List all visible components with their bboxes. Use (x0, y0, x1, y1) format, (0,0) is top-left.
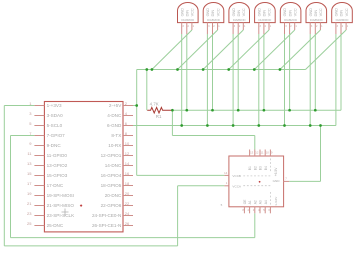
svg-text:GND: GND (180, 8, 184, 17)
svg-text:1: 1 (270, 25, 272, 28)
wire LED6 VCC diagonal (280, 30, 321, 70)
svg-text:B2: B2 (253, 166, 257, 170)
IC1 MISO marker (80, 204, 83, 207)
junction +5V bus LED5 (253, 68, 256, 71)
svg-text:23-SPI-SCLK: 23-SPI-SCLK (47, 213, 76, 218)
svg-text:3: 3 (285, 25, 287, 28)
svg-text:GND: GND (283, 8, 287, 17)
svg-text:10-RX: 10-RX (108, 143, 121, 148)
svg-text:3-SDA0: 3-SDA0 (47, 113, 64, 118)
IC2 dashed internal rails (243, 159, 270, 205)
LED6 pin numbers (311, 25, 323, 28)
wire GND stem to IC2 GND pin (289, 126, 320, 182)
wire GPIO7 net: IC1 pin7 to IC2 A2 (11, 136, 255, 238)
wire data net horizontal (172, 34, 341, 110)
R1 value label 4.7K (150, 101, 159, 106)
svg-text:DIA8MOD: DIA8MOD (233, 18, 246, 22)
svg-text:1: 1 (218, 25, 220, 28)
svg-text:26-SPI-CE1-N: 26-SPI-CE1-N (92, 223, 121, 228)
wire LED6 DIN vertical (314, 34, 316, 110)
LED4 pin stubs (259, 23, 269, 34)
svg-text:3: 3 (234, 25, 236, 28)
IC1 Raspberry Pi GPIO header box (44, 102, 123, 232)
IC2 left pin stubs VCCB VCCA (224, 175, 229, 185)
svg-text:VCCA: VCCA (232, 184, 242, 188)
LED5 pin numbers (285, 25, 297, 28)
svg-text:A4: A4 (264, 200, 268, 204)
junction +5V bus LED1 (151, 68, 154, 71)
svg-text:11: 11 (27, 151, 32, 156)
svg-text:VCC: VCC (242, 8, 246, 16)
svg-text:18: 18 (125, 181, 130, 186)
svg-text:3: 3 (29, 111, 32, 116)
svg-text:B4: B4 (264, 166, 268, 170)
svg-text:DIA8MOD: DIA8MOD (310, 18, 323, 22)
svg-text:13: 13 (250, 151, 254, 155)
svg-text:5: 5 (221, 203, 223, 207)
junction data LED3 (237, 109, 240, 112)
junction data LED2 (211, 109, 214, 112)
svg-text:16: 16 (125, 171, 130, 176)
svg-text:A3: A3 (259, 200, 263, 204)
LED5 pin stubs (285, 23, 295, 34)
svg-text:B3: B3 (259, 166, 263, 170)
svg-text:15: 15 (27, 171, 32, 176)
svg-text:VCC: VCC (268, 8, 272, 16)
wire LED3 VCC diagonal (203, 30, 243, 70)
svg-text:2: 2 (239, 25, 241, 28)
wire +3V3 net: IC1 pin1 to IC2 VCCA (4, 106, 224, 246)
junction +5V bus LED6 (279, 68, 282, 71)
svg-text:1: 1 (244, 25, 246, 28)
junction GND stem (319, 124, 322, 127)
junction data LED5 (288, 109, 291, 112)
svg-text:DIN: DIN (314, 10, 318, 17)
LED1 pin numbers (182, 25, 194, 28)
svg-text:23: 23 (27, 211, 32, 216)
IC1 left pin stubs (34, 106, 44, 226)
svg-text:2: 2 (290, 25, 292, 28)
svg-text:16-GPIO4: 16-GPIO4 (101, 173, 122, 178)
LED1 pin stubs (182, 23, 192, 34)
svg-text:14: 14 (224, 171, 228, 175)
LED7 pin stubs (336, 23, 346, 34)
svg-text:12: 12 (125, 151, 130, 156)
svg-text:VCC: VCC (293, 8, 297, 16)
svg-text:17: 17 (27, 181, 32, 186)
svg-text:12-GPIO1: 12-GPIO1 (101, 153, 122, 158)
svg-text:10: 10 (125, 141, 130, 146)
LED6 NeoPixel dome (306, 2, 327, 22)
svg-text:17-DNC: 17-DNC (47, 183, 64, 188)
svg-text:9-DNC: 9-DNC (47, 143, 62, 148)
wire LED5 GND vertical (284, 34, 286, 126)
svg-text:26: 26 (125, 221, 130, 226)
junction +5V bus LED4 (227, 68, 230, 71)
svg-text:DIN: DIN (340, 10, 344, 17)
junction data stem (171, 109, 174, 112)
wire LED6 GND vertical (309, 34, 311, 126)
LED1 NeoPixel dome (178, 2, 199, 22)
wire LED1 VCC diagonal (152, 30, 192, 70)
IC2 right pin stub GND (284, 180, 290, 182)
svg-text:A1: A1 (248, 200, 252, 204)
svg-text:11: 11 (261, 151, 264, 155)
svg-text:VCC: VCC (191, 8, 195, 16)
IC2 inside pin names (232, 166, 280, 206)
svg-text:7-GPIO7: 7-GPIO7 (47, 133, 66, 138)
junction GND LED5 (283, 124, 286, 127)
wire LED2 GND vertical (206, 34, 208, 126)
svg-text:20-DNC: 20-DNC (105, 193, 122, 198)
svg-text:7: 7 (285, 177, 287, 181)
svg-text:DIA8MOD: DIA8MOD (336, 18, 349, 22)
svg-text:GND: GND (206, 8, 210, 17)
IC2 origin dot (259, 181, 261, 183)
svg-text:13: 13 (27, 161, 32, 166)
svg-text:R1: R1 (156, 114, 162, 119)
wire LED3 DIN vertical (237, 34, 239, 110)
svg-text:14: 14 (125, 161, 130, 166)
LED7 NeoPixel dome (332, 3, 353, 23)
junction GND LED3 (232, 124, 235, 127)
junction GND LED1 (180, 124, 183, 127)
svg-text:9: 9 (271, 151, 273, 155)
svg-text:GND: GND (335, 8, 339, 17)
svg-text:14-DNC: 14-DNC (105, 163, 122, 168)
svg-text:VCC: VCC (345, 8, 349, 16)
svg-text:2: 2 (342, 25, 344, 28)
svg-text:2-+5V: 2-+5V (109, 103, 122, 108)
wire LED3 GND vertical (232, 34, 234, 126)
IC2 TXB0104 level shifter box (229, 156, 284, 207)
junction GND LED2 (206, 124, 209, 127)
svg-text:3: 3 (311, 25, 313, 28)
svg-text:12: 12 (255, 151, 259, 155)
svg-text:1: 1 (295, 25, 297, 28)
svg-text:13-GPIO2: 13-GPIO2 (47, 163, 68, 168)
IC1 origin cross (62, 209, 69, 216)
svg-text:2: 2 (316, 25, 318, 28)
junction +5V at pin2 (135, 104, 138, 107)
IC2 bottom pin stubs OE A1-A4 (244, 207, 270, 214)
resistor R1 4.7K (147, 107, 172, 113)
wire data net stem to IC2 B2 (172, 110, 254, 149)
svg-text:1: 1 (347, 25, 349, 28)
svg-text:3: 3 (208, 25, 210, 28)
svg-text:GND: GND (232, 8, 236, 17)
IC2 top pin stubs B1-B4 (250, 150, 271, 157)
IC1 left pin numbers (27, 101, 32, 226)
svg-text:10: 10 (266, 151, 270, 155)
junction GND LED4 (257, 124, 260, 127)
svg-text:11-GPIO0: 11-GPIO0 (47, 153, 68, 158)
LED6 pin stubs (310, 23, 320, 34)
svg-text:DIA8MOD: DIA8MOD (181, 18, 194, 22)
svg-text:DIN: DIN (186, 10, 190, 17)
svg-text:3: 3 (337, 25, 339, 28)
svg-text:1-3.6V: 1-3.6V (274, 196, 278, 206)
LED2 pin stubs (207, 23, 217, 34)
wire LED5 DIN vertical (289, 34, 291, 110)
svg-text:2: 2 (213, 25, 215, 28)
junction +5V R1 riser (145, 68, 148, 71)
svg-text:DIA8MOD: DIA8MOD (207, 18, 220, 22)
svg-text:DIA8MOD: DIA8MOD (259, 18, 272, 22)
svg-text:5: 5 (29, 121, 32, 126)
LED3 NeoPixel dome (229, 2, 250, 22)
svg-text:6-GND: 6-GND (107, 123, 122, 128)
svg-text:2: 2 (188, 25, 190, 28)
svg-text:18-GPIO5: 18-GPIO5 (101, 183, 122, 188)
svg-text:4.7K: 4.7K (150, 101, 159, 106)
svg-text:1-+3V3: 1-+3V3 (47, 103, 62, 108)
svg-text:VCCB: VCCB (232, 174, 241, 178)
svg-text:B1: B1 (248, 166, 252, 170)
svg-text:19-SPI-MOSI: 19-SPI-MOSI (47, 193, 74, 198)
IC1 right pin numbers (125, 101, 130, 226)
wire LED4 VCC diagonal (229, 30, 269, 70)
svg-text:24: 24 (125, 211, 130, 216)
LED7 pin numbers (337, 25, 349, 28)
svg-text:21-SPI-MISO: 21-SPI-MISO (47, 203, 75, 208)
svg-text:A2: A2 (253, 200, 257, 204)
svg-text:DIN: DIN (288, 10, 292, 17)
wire LED4 DIN vertical (263, 34, 265, 110)
svg-text:24-SPI-CE0-N: 24-SPI-CE0-N (92, 213, 121, 218)
wire LED1 GND vertical (181, 34, 183, 126)
svg-text:DIA8MOD: DIA8MOD (284, 18, 297, 22)
svg-text:3: 3 (182, 25, 184, 28)
junction data LED4 (263, 109, 266, 112)
wire LED2 DIN vertical (212, 34, 214, 110)
LED2 pin numbers (208, 25, 220, 28)
svg-text:25-DNC: 25-DNC (47, 223, 64, 228)
IC1 right pin stubs (123, 106, 133, 226)
wire GND net horizontal from IC1 pin6 (133, 34, 336, 126)
wire LED2 VCC diagonal (178, 30, 218, 70)
junction +5V bus LED3 (202, 68, 205, 71)
svg-text:GND: GND (309, 8, 313, 17)
svg-text:DIN: DIN (211, 10, 215, 17)
svg-text:4-DNC: 4-DNC (107, 113, 122, 118)
svg-text:19: 19 (27, 191, 32, 196)
wire +5V net: IC1 pin2, top bus, VCCB (133, 70, 306, 176)
IC1 right pin names (92, 103, 122, 228)
svg-text:5-SCL0: 5-SCL0 (47, 123, 63, 128)
svg-text:GND: GND (273, 179, 281, 183)
wire LED4 GND vertical (258, 34, 260, 126)
LED4 pin numbers (260, 25, 272, 28)
IC1 left pin names (47, 103, 76, 228)
R1 name label (156, 114, 162, 119)
junction +5V bus LED2 (176, 68, 179, 71)
svg-text:2: 2 (265, 25, 267, 28)
LED4 NeoPixel dome (255, 2, 276, 22)
LED2 NeoPixel dome (203, 2, 224, 22)
IC2 pin numbers (221, 151, 288, 212)
svg-text:DIN: DIN (237, 10, 241, 17)
wire LED7 VCC diagonal (306, 30, 347, 70)
svg-text:DIN: DIN (263, 10, 267, 17)
svg-text:22: 22 (125, 201, 130, 206)
svg-text:+6.5V: +6.5V (274, 167, 278, 177)
svg-text:25: 25 (27, 221, 32, 226)
svg-text:1: 1 (193, 25, 195, 28)
svg-text:22-GPIO6: 22-GPIO6 (101, 203, 122, 208)
svg-text:GND: GND (258, 8, 262, 17)
svg-text:1: 1 (226, 181, 228, 185)
svg-text:21: 21 (27, 201, 32, 206)
svg-text:3: 3 (260, 25, 262, 28)
svg-text:VCC: VCC (216, 8, 220, 16)
LED3 pin stubs (233, 23, 243, 34)
wire LED1 DIN vertical (186, 34, 188, 110)
svg-text:20: 20 (125, 191, 130, 196)
junction data LED1 (185, 109, 188, 112)
LED5 NeoPixel dome (280, 2, 301, 22)
svg-text:8-TX: 8-TX (111, 133, 121, 138)
svg-text:VCC: VCC (319, 8, 323, 16)
junction data LED6 (314, 109, 317, 112)
svg-text:15-GPIO3: 15-GPIO3 (47, 173, 68, 178)
svg-text:9: 9 (29, 141, 32, 146)
wire LED5 VCC diagonal (254, 30, 294, 70)
svg-text:1: 1 (321, 25, 323, 28)
svg-text:OE: OE (243, 199, 247, 205)
junction GND LED6 (309, 124, 312, 127)
LED3 pin numbers (234, 25, 246, 28)
